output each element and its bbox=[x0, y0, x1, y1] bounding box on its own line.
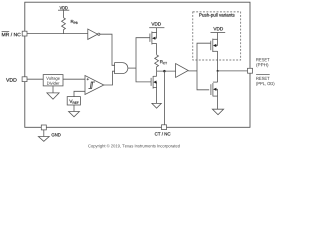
resistor RPB bbox=[62, 18, 66, 34]
comparator hysteresis symbol bbox=[88, 82, 94, 88]
ground below voltage divider bbox=[47, 86, 59, 99]
label RESET (PPH) line2 bbox=[256, 63, 268, 67]
label RPB subscript bbox=[74, 22, 78, 24]
comparator plus sign bbox=[87, 78, 89, 80]
label VREF subscript bbox=[73, 102, 79, 104]
label Voltage bbox=[46, 77, 60, 81]
VDD rail output stage bbox=[211, 33, 226, 40]
label push-pull variants bbox=[199, 13, 234, 17]
wire inverter output to AND input A bbox=[100, 34, 115, 65]
transistor Q3 PMOS (output) bbox=[211, 39, 218, 52]
resistor RCT bbox=[155, 55, 159, 71]
output buffer U4 bbox=[176, 64, 189, 78]
overline on RESET (PPL, OD) bbox=[256, 74, 270, 76]
label RPB bbox=[71, 20, 74, 23]
wire Vref to comparator minus input bbox=[74, 91, 85, 96]
wire AND output to gate rail bbox=[128, 67, 136, 69]
gate rail bracket (middle CMOS pair) bbox=[136, 38, 151, 82]
label VDD output bbox=[213, 27, 223, 30]
ground symbol at GND pin bbox=[38, 130, 49, 141]
node CT spine wire bbox=[157, 70, 176, 72]
label GND bbox=[52, 133, 61, 136]
pin MR/NC bbox=[22, 31, 27, 36]
ground below Vref bbox=[69, 105, 80, 117]
wire VDD pin to voltage divider bbox=[27, 78, 43, 80]
wire CT node down to CT pin bbox=[163, 71, 165, 125]
wire MR pin to inverter bbox=[27, 33, 88, 35]
label VDD top-left bbox=[60, 6, 68, 9]
AND gate U3 bbox=[115, 63, 128, 74]
label VDD middle bbox=[151, 22, 160, 25]
label RESET (PPL,OD) line1 bbox=[256, 77, 269, 80]
pin CT/NC bbox=[162, 125, 167, 130]
wire Q3 drain to output node bbox=[217, 51, 219, 71]
dashed box push-pull variants bbox=[193, 12, 241, 60]
transistor Q4 NMOS (output) bbox=[211, 71, 218, 97]
transistor Q1 PMOS (middle) bbox=[150, 32, 157, 45]
Vref box bbox=[67, 97, 80, 105]
inverter U1 bbox=[88, 29, 100, 39]
label VDD pin bbox=[6, 78, 17, 82]
label CT/NC bbox=[155, 132, 171, 135]
VDD rail middle bbox=[149, 28, 164, 33]
label VREF bbox=[69, 100, 72, 103]
wire comparator output to AND input B bbox=[104, 71, 115, 85]
junction dot CT node bbox=[163, 70, 166, 73]
wire divider to comparator bbox=[63, 78, 85, 80]
label MR/NC text bbox=[2, 33, 21, 37]
comparator U2 bbox=[85, 76, 104, 95]
wire Q1 drain to RCT bbox=[156, 44, 158, 55]
VDD rail top-left bbox=[58, 10, 69, 18]
gate rail bracket (output CMOS pair) bbox=[197, 43, 211, 90]
wire output node to RESET pin bbox=[218, 70, 248, 72]
ground below Q4 bbox=[212, 96, 223, 115]
transistor Q2 NMOS (middle) bbox=[151, 71, 157, 89]
IC border bbox=[25, 2, 250, 127]
label RCT subscript bbox=[163, 62, 167, 64]
label RESET (PPH) line1 bbox=[256, 58, 269, 61]
overline on MR bbox=[2, 30, 10, 32]
pin VDD bbox=[22, 77, 27, 82]
label RESET (PPL,OD) line2 bbox=[256, 82, 274, 86]
label Divider bbox=[47, 82, 59, 85]
voltage divider block bbox=[43, 75, 63, 86]
label RCT bbox=[160, 60, 163, 63]
ground below Q2 bbox=[152, 88, 161, 109]
copyright notice bbox=[88, 144, 180, 148]
pin RESET bbox=[248, 68, 253, 73]
junction dot output node bbox=[217, 70, 219, 72]
pin GND bbox=[41, 125, 46, 130]
wire buffer output to output gate rail bbox=[188, 70, 197, 72]
